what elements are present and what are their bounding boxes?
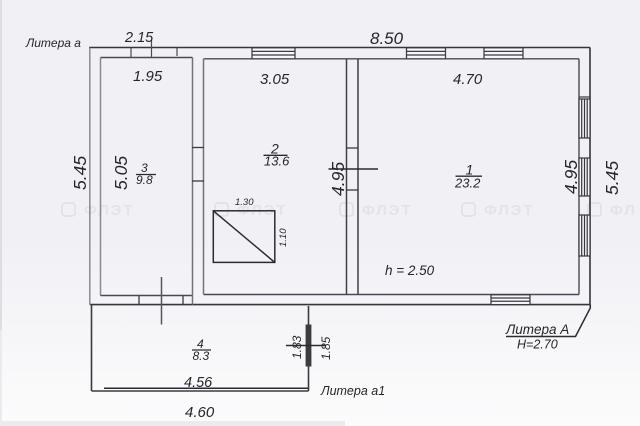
svg-text:Н=2.70: Н=2.70 [517, 338, 558, 352]
wall: outer left (veranda) [89, 48, 91, 305]
wall: outer top [89, 47, 590, 49]
svg-text:8.3: 8.3 [193, 349, 210, 363]
svg-text:ФЛЭТ: ФЛЭТ [84, 202, 135, 219]
svg-text:5.05: 5.05 [111, 156, 131, 190]
wall: inner bottom veranda [101, 295, 193, 297]
window W1 top wall [252, 48, 295, 59]
svg-text:1.85: 1.85 [319, 336, 333, 360]
wall between room 2 and room 1 [347, 59, 359, 295]
svg-text:3.05: 3.05 [260, 71, 290, 88]
window RW1 right wall [579, 99, 590, 138]
stair symbol in room 2 [213, 211, 274, 263]
svg-text:Литера А: Литера А [505, 322, 569, 337]
door leaf line bottom wall [161, 277, 163, 325]
wall: inner left (veranda) [100, 58, 102, 296]
svg-text:9.8: 9.8 [136, 173, 153, 187]
svg-text:ФЛЭТ: ФЛЭТ [484, 202, 535, 219]
dimension line 4.56 [104, 387, 308, 389]
wall: inner right [578, 59, 580, 295]
room 4 right wall lower [308, 367, 310, 392]
scan edge left [0, 0, 2, 330]
svg-text:1.83: 1.83 [290, 335, 304, 359]
room 4 right wall upper [308, 306, 310, 325]
dimension line 1.83/1.85 [286, 345, 326, 347]
watermark band [62, 202, 637, 219]
wall: inner top veranda [101, 57, 193, 59]
svg-text:ФЛ: ФЛ [610, 202, 637, 219]
svg-text:23.2: 23.2 [454, 176, 481, 191]
leader line Литера А [506, 305, 590, 337]
svg-text:5.45: 5.45 [70, 156, 90, 190]
svg-text:13.6: 13.6 [264, 154, 290, 169]
wall: outer bottom [90, 304, 590, 306]
door opening ticks bottom wall veranda [139, 296, 183, 305]
svg-text:1.10: 1.10 [278, 228, 289, 247]
svg-text:4.95: 4.95 [328, 162, 348, 196]
room 1 label [454, 162, 482, 191]
wall: inner bottom main [204, 294, 580, 296]
room 4 bottom wall [92, 390, 309, 392]
svg-text:2.15: 2.15 [124, 30, 154, 46]
svg-text:5.45: 5.45 [602, 161, 622, 195]
window RW2 right wall [579, 158, 590, 196]
window W3 top wall [484, 48, 523, 59]
scan smudge bottom [0, 421, 345, 426]
door opening ticks in wall 2/1 [346, 148, 359, 190]
svg-text:Литера а: Литера а [25, 36, 81, 50]
svg-text:8.50: 8.50 [370, 29, 404, 48]
svg-text:h = 2.50: h = 2.50 [385, 263, 435, 278]
dimension line 4.95 crossing wall 2/1 [329, 168, 379, 170]
svg-text:1.30: 1.30 [235, 197, 254, 208]
room 4 left wall [91, 305, 93, 391]
wall between room 3 and room 2 [193, 58, 204, 305]
room 4 label [192, 337, 211, 363]
svg-text:Литера а1: Литера а1 [320, 384, 385, 398]
svg-text:1.95: 1.95 [133, 68, 163, 85]
svg-text:4.95: 4.95 [561, 160, 581, 194]
svg-text:ФЛЭТ: ФЛЭТ [362, 202, 413, 219]
window BW1 bottom wall [491, 295, 530, 305]
room 2 label [264, 141, 291, 169]
svg-text:4.60: 4.60 [185, 404, 215, 421]
dimension ticks top wall veranda [131, 40, 177, 58]
window W2 top wall [407, 48, 446, 59]
window RW3 right wall [579, 215, 590, 256]
door leaf room 4 (filled) [306, 325, 312, 367]
wall: inner top main [204, 58, 580, 60]
wall: outer right [589, 48, 591, 306]
room 3 label [136, 161, 156, 187]
svg-text:4.70: 4.70 [453, 71, 483, 88]
divider tick right wall [579, 96, 590, 98]
door opening ticks in wall 3/2 [192, 148, 204, 182]
svg-text:4.56: 4.56 [184, 375, 213, 391]
